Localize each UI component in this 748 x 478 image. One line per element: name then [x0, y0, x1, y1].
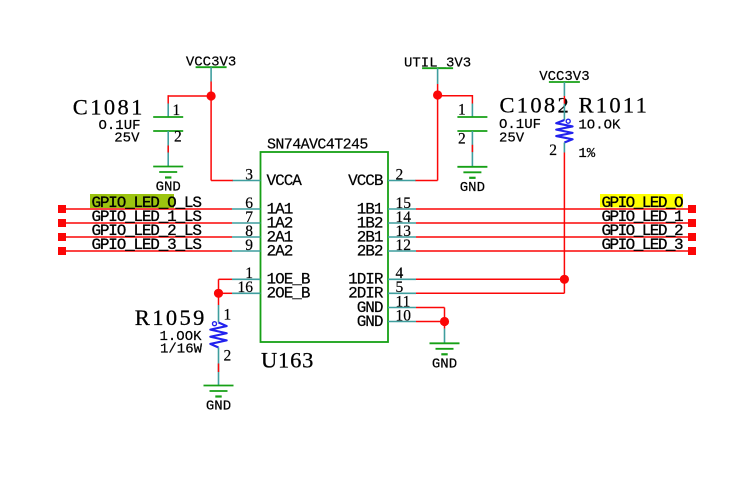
wire node A to C1081: [168, 95, 211, 97]
svg-text:SN74AVC4T245: SN74AVC4T245: [267, 137, 368, 154]
svg-text:2: 2: [396, 166, 404, 183]
pin 11 stub (GND): [388, 307, 416, 309]
wire net GPIO_LED_2: [416, 236, 688, 238]
wire C1081 pin 2 to GND: [167, 146, 169, 153]
wire node E down to R1059: [218, 293, 220, 305]
pin 6 stub (1A1): [232, 208, 261, 210]
power pin stub: [210, 67, 212, 81]
svg-text:GND: GND: [460, 180, 485, 196]
wire net GPIO_LED_1: [416, 222, 688, 224]
ground (C1082): [457, 167, 487, 196]
off-page connector GPIO_LED_O: [688, 205, 696, 213]
off-page connector GPIO_LED_3: [688, 247, 696, 255]
wire to pin 2 (VCCB): [416, 180, 438, 182]
svg-text:GND: GND: [156, 180, 181, 196]
wire C1082 pin 2 to GND: [471, 145, 473, 152]
off-page connector GPIO_LED_3_LS: [58, 247, 66, 255]
svg-text:2: 2: [458, 130, 466, 147]
svg-text:16: 16: [238, 279, 254, 296]
node B junction: [433, 90, 442, 99]
net highlight GPIO_LED_0: [600, 194, 683, 208]
pin 2 stub (VCCB): [388, 180, 416, 182]
svg-text:1/16W: 1/16W: [160, 342, 203, 358]
wire R1059 pin 2 to GND: [218, 364, 220, 373]
R1059 pin 2 stub: [218, 348, 220, 386]
off-page connector GPIO_LED_O_LS: [58, 205, 66, 213]
ground (U163): [430, 343, 460, 372]
pin 10 stub (GND): [388, 321, 416, 323]
wire node C down: [563, 279, 565, 293]
svg-text:10: 10: [396, 307, 412, 324]
svg-text:9: 9: [245, 237, 253, 254]
pin 3 stub (VCCA): [232, 180, 261, 182]
R1011 pin 2 stub: [563, 143, 565, 153]
wire to pin 3 (VCCA): [211, 180, 233, 182]
power symbol VCC3V3 (right): [539, 69, 589, 85]
off-page connector GPIO_LED_2: [688, 233, 696, 241]
wire net GPIO_LED_O_LS: [66, 208, 232, 210]
node D junction: [440, 317, 449, 326]
C1082 pin 2 stub: [471, 131, 473, 167]
svg-text:GPIO_LED_3_LS: GPIO_LED_3_LS: [92, 236, 202, 254]
svg-text:C1082: C1082: [500, 93, 572, 118]
wire pin 16 (2OE_B): [219, 292, 233, 294]
node A junction: [207, 91, 216, 100]
power symbol VCC3V3 (left): [186, 54, 236, 70]
node E junction: [214, 289, 223, 298]
wire net GPIO_LED_1_LS: [66, 222, 232, 224]
wire net GPIO_LED_3: [416, 250, 688, 252]
svg-text:GND: GND: [206, 399, 231, 415]
svg-text:2OE_B: 2OE_B: [267, 285, 310, 303]
svg-text:R1059: R1059: [135, 305, 207, 330]
svg-text:3: 3: [245, 166, 253, 183]
svg-text:GPIO_LED_3: GPIO_LED_3: [602, 236, 683, 254]
wire node A down to pin 3: [210, 96, 212, 181]
off-page connector GPIO_LED_2_LS: [58, 233, 66, 241]
wire UTIL_3V3 to node B: [437, 84, 439, 95]
wire node B to C1082: [438, 95, 473, 97]
node C junction: [560, 275, 569, 284]
svg-text:2: 2: [224, 348, 232, 365]
GND pin stub: [444, 329, 446, 344]
IC U163 body: [261, 152, 389, 342]
capacitor C1082: [457, 117, 487, 131]
svg-text:1: 1: [173, 102, 181, 119]
pin 13 stub (2B1): [388, 236, 416, 238]
wire node B down to pin 2: [437, 95, 439, 181]
resistor R1059: [210, 322, 226, 348]
pin 1 stub (1OE_B): [232, 278, 261, 280]
R1011 pin 1 stub: [563, 104, 565, 120]
svg-text:GND: GND: [432, 356, 457, 372]
svg-text:25V: 25V: [114, 131, 140, 147]
wire net GPIO_LED_3_LS: [66, 250, 232, 252]
svg-text:2: 2: [174, 129, 182, 146]
wire pin 4 (1DIR) to node C: [416, 278, 564, 280]
svg-text:1: 1: [224, 306, 232, 323]
resistor R1011: [556, 119, 572, 142]
ground (C1081): [153, 167, 183, 196]
pin 4 stub (1DIR): [388, 278, 416, 280]
net highlight GPIO_LED_0_LS: [90, 194, 174, 208]
wire pin 11 (GND): [416, 307, 445, 309]
wire down to node E: [218, 279, 220, 293]
pin 15 stub (1B1): [388, 208, 416, 210]
C1081 pin 2 stub: [167, 131, 169, 167]
pin 7 stub (1A2): [232, 222, 261, 224]
svg-text:C1081: C1081: [73, 95, 145, 120]
wire net GPIO_LED_2_LS: [66, 236, 232, 238]
R1059 pin 1 stub: [218, 305, 220, 323]
wire down to C1081 pin 1: [167, 95, 169, 103]
off-page connector GPIO_LED_1: [688, 219, 696, 227]
pin 5 stub (2DIR): [388, 292, 416, 294]
wire VCC3V3 to node A: [210, 82, 212, 97]
svg-text:25V: 25V: [499, 131, 525, 147]
capacitor C1081: [153, 117, 183, 131]
C1082 pin 1 stub: [471, 104, 473, 118]
power pin stub: [437, 68, 439, 84]
power symbol UTIL_3V3: [404, 55, 471, 71]
wire net GPIO_LED_O: [416, 208, 688, 210]
pin 8 stub (2A1): [232, 236, 261, 238]
svg-text:12: 12: [396, 237, 412, 254]
wire down to C1082 pin 1: [471, 95, 473, 104]
svg-text:GND: GND: [357, 313, 383, 331]
wire pin 5 (2DIR) to node C: [416, 292, 564, 294]
svg-text:U163: U163: [261, 348, 314, 373]
wire pin 1 (1OE_B): [219, 278, 233, 280]
svg-text:2A2: 2A2: [267, 242, 293, 260]
svg-text:R1011: R1011: [579, 93, 650, 118]
svg-text:VCCA: VCCA: [267, 172, 303, 190]
C1081 pin 1 stub: [167, 104, 169, 118]
pin 16 stub (2OE_B): [232, 292, 261, 294]
svg-text:VCCB: VCCB: [348, 172, 383, 190]
pin 12 stub (2B2): [388, 250, 416, 252]
svg-text:1O.OK: 1O.OK: [578, 117, 621, 133]
off-page connector GPIO_LED_1_LS: [58, 219, 66, 227]
wire pin 11 down to node D: [444, 308, 446, 322]
pin 9 stub (2A2): [232, 250, 261, 252]
wire node D to GND: [444, 322, 446, 329]
svg-text:1: 1: [458, 101, 466, 118]
power pin stub: [563, 82, 565, 96]
svg-text:1%: 1%: [578, 146, 595, 162]
svg-text:2: 2: [549, 142, 557, 159]
wire R1011 down to node C: [563, 153, 565, 280]
wire VCC3V3 to R1011: [563, 96, 565, 104]
svg-text:2B2: 2B2: [357, 242, 383, 260]
ground (R1059): [204, 386, 234, 415]
wire pin 10 (GND): [416, 321, 445, 323]
pin 14 stub (1B2): [388, 222, 416, 224]
